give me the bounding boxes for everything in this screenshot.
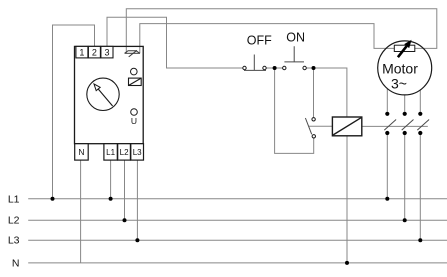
svg-text:L1: L1 (106, 148, 115, 157)
N rail (28, 262, 447, 264)
L2 rail (28, 219, 447, 221)
terminal 3 (101, 46, 113, 58)
main contact 2 (403, 112, 407, 116)
svg-text:L1: L1 (8, 193, 20, 205)
terminal L1 (104, 144, 117, 160)
wire timer contact left pin to thermistor right (126, 9, 437, 54)
indicator lamp circle (131, 68, 138, 75)
voltage indicator circle U (131, 109, 138, 116)
svg-text:N: N (78, 147, 84, 157)
node L1 feed (51, 197, 55, 201)
wire aux contact to coil left (309, 125, 333, 127)
wire terminal3 to OFF button (107, 17, 243, 68)
terminal N (75, 144, 89, 160)
wire timer terminal L2 to L2 rail (124, 160, 126, 220)
wire timer terminal L3 to L3 rail (136, 160, 138, 240)
wire motor to contact 3 (419, 90, 421, 112)
motor M1 (378, 41, 432, 95)
wire terminal2 to L1 loop (53, 25, 95, 199)
wire motor to contact 2 (404, 95, 406, 112)
clock dial (87, 78, 119, 110)
wire node J2 down to aux contact top (313, 68, 315, 118)
terminal L3 (131, 144, 144, 160)
svg-text:2: 2 (92, 48, 97, 58)
svg-text:L2: L2 (120, 148, 129, 157)
svg-text:OFF: OFF (247, 34, 272, 48)
L3 rail (28, 239, 447, 241)
svg-text:N: N (12, 257, 20, 269)
node J1 (273, 66, 277, 70)
svg-text:3~: 3~ (391, 75, 407, 91)
wire timer contact right pin to thermistor left (140, 24, 395, 54)
L1 rail (28, 198, 447, 200)
svg-text:Motor: Motor (382, 61, 418, 77)
svg-text:U: U (131, 116, 137, 126)
main contact 1 (385, 112, 389, 116)
wire latch loop J1 to aux contact bottom (275, 68, 314, 153)
node timer L3 (135, 238, 139, 242)
wire contact 3 to L3 rail (419, 135, 421, 240)
wire motor to contact 1 (386, 89, 388, 112)
wire coil bottom to N rail (346, 136, 348, 263)
svg-text:ON: ON (286, 31, 305, 45)
node contact1 L1 (385, 197, 389, 201)
svg-text:1: 1 (79, 48, 84, 58)
contactor coil K1 (332, 117, 361, 136)
wire timer terminal N to N rail (80, 160, 82, 263)
node timer L2 (123, 218, 127, 222)
svg-text:L3: L3 (8, 235, 20, 247)
wire ON to node J2 (306, 67, 313, 69)
wire contact 1 to L1 rail (386, 135, 388, 199)
slashed rectangle indicator (129, 78, 142, 85)
thermistor F1 (394, 45, 415, 51)
node contact3 L3 (418, 238, 422, 242)
svg-text:3: 3 (104, 48, 109, 58)
wire OFF to node J1 (266, 67, 283, 69)
timer unit box (75, 46, 144, 143)
svg-text:L3: L3 (133, 148, 142, 157)
timer contact symbol (125, 50, 140, 57)
node J2 (312, 66, 316, 70)
mechanical linkage coil to main contacts (362, 125, 428, 127)
terminal 1 (76, 46, 88, 58)
node timer L1 (109, 197, 113, 201)
wire node J2 to coil K1 top (314, 68, 347, 117)
wire timer terminal L1 to L1 rail (110, 160, 112, 199)
wire contact 2 to L2 rail (404, 135, 406, 220)
terminal 2 (88, 46, 100, 58)
auxiliary contact K1 (312, 118, 315, 121)
node contact2 L2 (403, 218, 407, 222)
svg-text:L2: L2 (8, 215, 20, 227)
main contact 3 (418, 112, 422, 116)
node coil N (345, 261, 349, 265)
terminal L2 (118, 144, 131, 160)
